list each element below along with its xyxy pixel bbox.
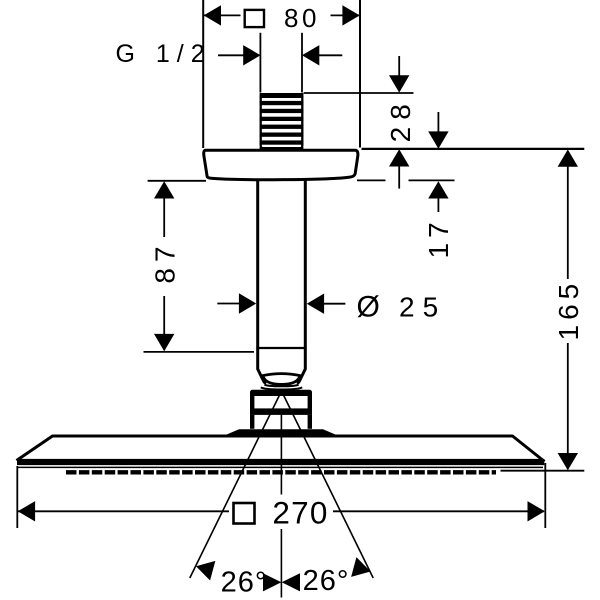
svg-text:28: 28 bbox=[385, 97, 416, 142]
dimension 87 line upper segment bbox=[163, 197, 165, 237]
centerline lower segment bbox=[280, 529, 282, 598]
wire: escutcheon bottom extension line right segment b bbox=[409, 179, 455, 181]
arrow diameter-25 pointing left at pipe right bbox=[307, 294, 324, 314]
svg-text:87: 87 bbox=[150, 240, 181, 283]
svg-text:G 1/2: G 1/2 bbox=[116, 40, 212, 68]
dimension diameter-25 left arrow shaft bbox=[217, 303, 240, 305]
angle arrow left 26deg bbox=[193, 556, 215, 580]
pipe left wall bbox=[258, 180, 267, 384]
nozzle dash strip bbox=[66, 470, 496, 474]
arrow 165 top pointing up bbox=[558, 150, 578, 167]
dimension diameter-25 right arrow shaft bbox=[324, 303, 345, 305]
wire: ceiling line right of escutcheon bbox=[362, 148, 585, 150]
square symbol of 270 bbox=[234, 503, 255, 524]
hub top cap bbox=[250, 390, 312, 396]
showerhead plate bottom thin line bbox=[18, 466, 543, 468]
ball joint neck flare line2 bbox=[261, 387, 302, 389]
wire: escutcheon bottom extension line right segment a bbox=[357, 179, 386, 181]
ball joint lens bbox=[263, 374, 300, 385]
dimension square-80 line right segment bbox=[331, 14, 360, 16]
dimension square-270 line left segment bbox=[18, 510, 229, 512]
bowtie arrow left at centerline bbox=[263, 573, 281, 591]
dimension 165 line lower segment bbox=[567, 343, 569, 469]
hub boss on plate bbox=[224, 429, 338, 435]
arrow 87 top pointing up bbox=[154, 181, 174, 198]
spray cone left line bbox=[190, 391, 282, 578]
svg-text:80: 80 bbox=[284, 3, 320, 33]
dimension square-270 right extension line bbox=[544, 463, 546, 528]
threaded connector G1/2 stripes bbox=[260, 93, 304, 150]
arrow left of square-80 bbox=[204, 5, 221, 25]
showerhead plate bottom black band bbox=[17, 459, 544, 465]
escutcheon ceiling plate bbox=[204, 150, 358, 179]
arrow 17 lower pointing up bbox=[428, 181, 448, 198]
threaded connector outline bbox=[261, 94, 303, 148]
hub middle black band bbox=[250, 408, 312, 415]
arrow G 1/2 pointing right at thread bbox=[243, 45, 260, 65]
showerhead plate top edge bbox=[17, 436, 545, 462]
dimension square-80 line left segment bbox=[204, 14, 241, 16]
dimension 17 lower arrow shaft bbox=[437, 198, 439, 212]
arrow 28 lower pointing up bbox=[389, 149, 409, 166]
bowtie arrow right at centerline bbox=[282, 573, 300, 591]
wire: extension line left thread edge bbox=[259, 33, 261, 93]
angle arrow right 26deg bbox=[351, 557, 373, 581]
arrow square-270 right pointing right bbox=[528, 501, 545, 521]
arrow 17 upper pointing down bbox=[428, 131, 448, 148]
showerhead plate white body bbox=[17, 436, 545, 465]
arrow 87 bottom pointing down bbox=[154, 334, 174, 351]
arrow 165 bottom pointing down bbox=[558, 453, 578, 470]
wire: 165 bottom extension line bbox=[501, 470, 585, 472]
hub wall band2 left bbox=[250, 415, 254, 429]
wire: extension line right of square-80 dimension bbox=[359, 0, 361, 148]
ball joint neck flare line1 bbox=[265, 385, 299, 387]
svg-text:26°: 26° bbox=[303, 565, 350, 597]
dimension 87 top extension line bbox=[148, 180, 206, 182]
arrow G 1/2 pointing left at thread right bbox=[302, 45, 319, 65]
dimension 87 line lower segment bbox=[163, 296, 165, 350]
arrow 28 upper pointing down bbox=[389, 75, 409, 92]
dimension 165 line upper segment bbox=[567, 151, 569, 279]
svg-text:Ø: Ø bbox=[357, 291, 384, 324]
dimension 17 upper arrow shaft bbox=[437, 112, 439, 134]
wire: thread top extension line to right bbox=[304, 92, 414, 94]
pipe right wall bbox=[297, 180, 306, 384]
svg-text:270: 270 bbox=[272, 495, 328, 531]
leader line G 1/2 left bbox=[218, 54, 245, 56]
wire: extension line left of square-80 dimension bbox=[202, 0, 204, 148]
svg-text:17: 17 bbox=[423, 217, 454, 258]
spray cone right line bbox=[282, 391, 374, 578]
wire: extension line right thread edge bbox=[301, 33, 303, 93]
dimension square-270 left extension line bbox=[16, 466, 18, 528]
dimension square-270 line right segment bbox=[333, 510, 544, 512]
hub wall band1 right bbox=[308, 394, 312, 409]
arrow right of square-80 bbox=[342, 5, 359, 25]
svg-text:25: 25 bbox=[399, 291, 446, 322]
arrow square-270 left pointing left bbox=[18, 501, 35, 521]
leader line G 1/2 right tail bbox=[319, 54, 342, 56]
hub wall band1 left bbox=[250, 394, 254, 409]
hub wall band2 right bbox=[308, 415, 312, 429]
dimension 87 bottom extension line bbox=[144, 351, 255, 353]
svg-text:165: 165 bbox=[553, 279, 584, 341]
dimension 28 upper arrow shaft bbox=[398, 56, 400, 78]
pipe joint line bbox=[256, 347, 306, 349]
dimension 28 lower arrow shaft bbox=[398, 166, 400, 189]
svg-text:26°: 26° bbox=[221, 567, 268, 599]
centerline upper segment bbox=[280, 409, 282, 495]
arrow diameter-25 pointing right at pipe bbox=[239, 293, 256, 313]
square symbol of 80 bbox=[245, 10, 264, 27]
